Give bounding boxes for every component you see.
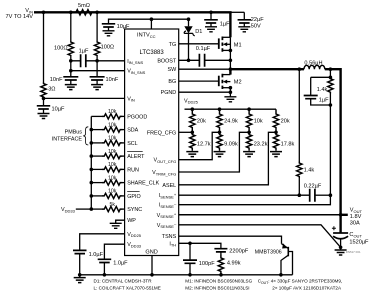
svg-text:VIN: VIN (127, 96, 135, 102)
svg-text:FREQ_CFG: FREQ_CFG (147, 130, 176, 136)
ground divider (275, 150, 277, 151)
capacitor 0.1uF boost (199, 54, 204, 67)
resistor 1.4k ISENSE+ (298, 69, 300, 161)
wire M2 drain-source (229, 69, 231, 74)
diode D1 schottky (188, 19, 190, 26)
svg-text:IIN_SNS: IIN_SNS (127, 59, 143, 65)
wire VDD33 to rail (76, 208, 92, 210)
svg-text:VTRIM_CFG: VTRIM_CFG (152, 170, 176, 176)
svg-text:12.7k: 12.7k (197, 142, 211, 148)
svg-text:10µF: 10µF (52, 106, 65, 112)
svg-text:10k: 10k (108, 189, 117, 195)
transistor Q1 MMBT3906 pnp (287, 247, 289, 256)
ground COUT (335, 250, 347, 255)
capacitor 1.0uF VDD33 (98, 259, 112, 262)
svg-text:20k: 20k (281, 119, 290, 125)
resistor 10k pull-up (91, 182, 102, 184)
svg-text:RUN: RUN (127, 167, 139, 173)
wire VIN pin (44, 97, 125, 99)
svg-text:1µF: 1µF (79, 49, 89, 55)
svg-text:VDD33: VDD33 (61, 207, 76, 213)
svg-text:23.2k: 23.2k (254, 142, 268, 148)
resistor 20k divider top (273, 109, 278, 132)
capacitor COUT polarized (333, 232, 348, 234)
resistor 17.8k divider bottom (273, 132, 278, 150)
svg-text:INTERFACE: INTERFACE (52, 137, 83, 143)
svg-text:MMBT3906: MMBT3906 (255, 250, 282, 256)
wire VOUT rail (325, 69, 341, 233)
wire ITH (179, 243, 221, 248)
capacitor 2200pF (214, 249, 227, 252)
transistor M2 nmos (218, 76, 220, 87)
resistor 3Ohm (41, 82, 46, 98)
wire ISENSE+ (179, 194, 310, 196)
svg-text:50V: 50V (251, 24, 261, 30)
svg-text:1µF: 1µF (319, 97, 329, 103)
svg-text:M1: INFINEON BSC050N03LSG: M1: INFINEON BSC050N03LSG (185, 279, 252, 284)
svg-text:10k: 10k (108, 162, 117, 168)
wire VDD25 pin (80, 234, 125, 251)
wire TG (179, 43, 219, 45)
svg-text:1.0µF: 1.0µF (89, 252, 104, 258)
wire VSENSE+ VOUT (179, 214, 341, 216)
resistor 9.09k divider bottom (217, 132, 222, 150)
svg-text:LTC3883: LTC3883 (139, 50, 164, 56)
svg-text:10nF: 10nF (106, 77, 119, 83)
svg-text:PMBus: PMBus (65, 130, 83, 136)
svg-text:3Ω: 3Ω (48, 86, 55, 92)
resistor 24.9k divider top (217, 109, 222, 132)
svg-text:M2: INFINEON BSC011N03LSI: M2: INFINEON BSC011N03LSI (185, 285, 249, 290)
svg-text:24.9k: 24.9k (224, 119, 238, 125)
transistor M1 nmos (218, 38, 220, 49)
svg-text:10k: 10k (108, 136, 117, 142)
svg-text:10k: 10k (108, 109, 117, 115)
svg-text:GND: GND (145, 249, 157, 255)
capacitor 10uF VIN (43, 98, 45, 105)
wire GND pin (151, 256, 153, 275)
svg-text:5mΩ: 5mΩ (78, 3, 90, 9)
ground divider (191, 150, 193, 151)
ground divider (219, 150, 221, 151)
svg-text:0.22µF: 0.22µF (304, 183, 322, 189)
svg-text:100Ω: 100Ω (54, 46, 68, 52)
svg-text:1µF: 1µF (220, 21, 230, 27)
svg-text:SDA: SDA (127, 128, 138, 134)
resistor 12.7k divider bottom (190, 132, 195, 150)
wire pull-up rail (90, 116, 92, 209)
wire IIN_SNS (71, 56, 81, 61)
svg-text:INTVCC: INTVCC (137, 33, 156, 39)
junction (42, 11, 46, 15)
svg-text:100Ω: 100Ω (101, 45, 115, 51)
ground M2 source (224, 97, 236, 102)
wire M1 drain (229, 12, 231, 37)
resistor 5mOhm shunt (71, 10, 97, 15)
wire BOOST (179, 59, 200, 61)
resistor 5k pull-up (91, 208, 102, 210)
capacitor 1uF DCR parallel (311, 76, 331, 78)
wire VIN column (43, 12, 45, 82)
wire to ISENSE (329, 105, 331, 195)
svg-text:VDD25: VDD25 (127, 232, 142, 238)
wire M1 source to SW (229, 37, 231, 69)
wire ASEL (179, 132, 276, 185)
wire VIN rail (34, 11, 232, 13)
svg-text:VIN_SNS: VIN_SNS (127, 69, 145, 75)
svg-text:PGOOD: PGOOD (127, 114, 147, 120)
ground WP (110, 223, 122, 228)
svg-text:1.4k: 1.4k (317, 87, 328, 93)
resistor 100Ohm right (96, 12, 98, 41)
svg-text:VOUT_CFG: VOUT_CFG (153, 158, 176, 164)
svg-text:TG: TG (169, 42, 177, 48)
wire INTVCC (109, 19, 189, 24)
svg-text:GPIO: GPIO (127, 194, 140, 200)
capacitor 100pF (189, 243, 191, 260)
svg-text:BG: BG (168, 79, 176, 85)
capacitor 0.22uF sense (310, 189, 315, 202)
svg-text:10k: 10k (254, 119, 263, 125)
svg-text:TSNS: TSNS (162, 234, 177, 240)
resistor 10k pull-up (91, 142, 102, 144)
svg-text:SYNC: SYNC (127, 207, 142, 213)
svg-text:VDD33: VDD33 (127, 242, 142, 248)
wire SW node (230, 68, 304, 70)
svg-text:COUT: COUT (349, 232, 362, 238)
svg-text:7V TO 14V: 7V TO 14V (6, 14, 34, 20)
svg-text:M2: M2 (234, 80, 242, 86)
resistor 10k pull-up (91, 155, 102, 157)
svg-text:SHARE_CLK: SHARE_CLK (127, 181, 159, 187)
svg-text:1.0µF: 1.0µF (113, 261, 128, 267)
svg-text:DN517 F01: DN517 F01 (346, 250, 361, 254)
resistor 100Ohm left (70, 12, 72, 41)
svg-text:1.8V: 1.8V (350, 214, 362, 220)
svg-text:WP: WP (127, 218, 136, 224)
resistor 10k pull-up (91, 129, 102, 131)
svg-text:4.99k: 4.99k (227, 261, 241, 267)
resistor 23.2k divider bottom (246, 132, 251, 150)
svg-text:5k: 5k (109, 202, 115, 208)
wire VOUT_CFG (179, 132, 220, 159)
svg-text:D1: CENTRAL CMDSH-3TR: D1: CENTRAL CMDSH-3TR (94, 279, 153, 284)
op-amp U1 LTC3883 controller IC body (125, 29, 179, 256)
resistor 10k pull-up (91, 168, 102, 170)
svg-text:BOOST: BOOST (157, 58, 177, 64)
svg-text:SCL: SCL (127, 141, 138, 147)
svg-text:PGND: PGND (161, 90, 177, 96)
wire TSNS (179, 236, 282, 244)
svg-text:10k: 10k (108, 122, 117, 128)
svg-text:0.56µH: 0.56µH (304, 60, 322, 66)
svg-text:SW: SW (168, 67, 178, 73)
wire VTRIM_CFG (179, 132, 249, 172)
wire VDD33 pin (104, 244, 124, 259)
wire FREQ_CFG (179, 131, 193, 133)
wire WP (116, 220, 125, 223)
wire VSENSE- (179, 225, 341, 248)
svg-text:ITH: ITH (169, 241, 176, 247)
resistor 1.4k DCR (328, 77, 333, 93)
svg-text:22µF: 22µF (251, 17, 264, 23)
wire BG (179, 80, 219, 82)
capacitor 10nF left (63, 77, 78, 80)
svg-text:2200pF: 2200pF (229, 249, 249, 255)
capacitor 1uF VIN bypass (210, 12, 212, 19)
inductor L 0.56uH (304, 65, 325, 69)
capacitor 22uF 50V (230, 11, 244, 13)
wire VDD25 rail (185, 108, 277, 110)
resistor 10k divider top (246, 109, 251, 132)
resistor 20k divider top (190, 109, 195, 132)
svg-text:100pF: 100pF (199, 261, 215, 267)
svg-text:1520µF: 1520µF (349, 240, 369, 246)
svg-text:M1: M1 (234, 42, 242, 48)
svg-text:2× 100µF AVX 12106D107KAT2A: 2× 100µF AVX 12106D107KAT2A (272, 285, 342, 290)
svg-text:10k: 10k (108, 149, 117, 155)
wire PGND (179, 91, 231, 93)
svg-text:0.1µF: 0.1µF (196, 46, 211, 52)
svg-text:ALERT: ALERT (127, 154, 145, 160)
svg-text:17.8k: 17.8k (281, 142, 295, 148)
svg-text:9.09k: 9.09k (224, 142, 238, 148)
wire ISENSE- (179, 195, 331, 205)
capacitor 1.0uF VDD25 (73, 250, 87, 253)
wire ground rail (80, 274, 293, 276)
capacitor 10uF INTVCC (102, 24, 115, 27)
svg-text:ASEL: ASEL (162, 183, 176, 189)
capacitor 10nF right (96, 61, 98, 77)
svg-text:1.4k: 1.4k (304, 167, 315, 173)
svg-text:20k: 20k (197, 119, 206, 125)
svg-text:10k: 10k (108, 175, 117, 181)
svg-text:L: COILCRAFT XAL7070-551ME: L: COILCRAFT XAL7070-551ME (94, 285, 161, 290)
wire VIN_SNS (70, 61, 72, 77)
resistor 10k pull-up (91, 195, 102, 197)
capacitor 1uF sense filter (81, 54, 86, 67)
resistor 10k pull-up (91, 115, 102, 117)
wire DCR branch (329, 69, 331, 77)
svg-text:10nF: 10nF (50, 77, 63, 83)
svg-text:30A: 30A (350, 221, 360, 227)
svg-text:VDD25: VDD25 (184, 98, 199, 104)
ground divider (248, 150, 250, 151)
ground main (79, 275, 81, 278)
resistor 4.99k (220, 252, 222, 255)
svg-text:D1: D1 (195, 29, 202, 35)
wire SW pin (179, 68, 231, 70)
